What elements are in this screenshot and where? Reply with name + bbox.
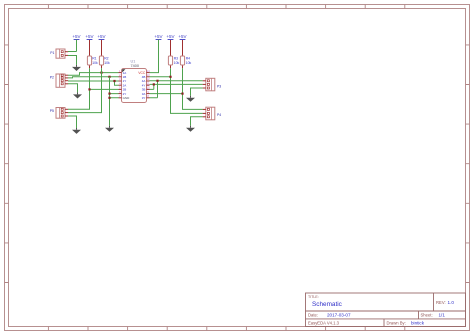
junction — [169, 76, 171, 78]
pin 6 — [119, 90, 127, 96]
power flag +5V at x=182.5 — [178, 34, 186, 40]
ground — [186, 126, 195, 132]
wire — [68, 56, 77, 65]
pin 7 — [119, 94, 131, 100]
pin 13 — [142, 73, 150, 79]
wire — [68, 81, 119, 85]
wire — [150, 81, 203, 98]
svg-text:Date:: Date: — [308, 313, 318, 318]
svg-text:R4: R4 — [186, 57, 190, 61]
pin 12 — [142, 77, 150, 83]
svg-text:7400: 7400 — [131, 64, 139, 68]
svg-text:EasyEDA V4.1.3: EasyEDA V4.1.3 — [308, 320, 340, 325]
junction — [108, 97, 110, 99]
svg-text:P2: P2 — [50, 75, 54, 79]
power flag +5V at x=76.5 — [72, 34, 80, 40]
svg-text:R2: R2 — [104, 57, 108, 61]
wire — [191, 117, 203, 126]
svg-text:+5V: +5V — [97, 34, 105, 39]
svg-text:+5V: +5V — [166, 34, 174, 39]
svg-text:10k: 10k — [104, 61, 110, 65]
pin 10 — [142, 86, 150, 92]
svg-text:R3: R3 — [174, 57, 178, 61]
svg-text:bintick: bintick — [411, 320, 425, 325]
pin 8 — [142, 94, 150, 100]
wire — [68, 68, 102, 112]
wire — [68, 68, 119, 109]
ground — [72, 128, 81, 134]
ground — [105, 126, 114, 132]
junction — [156, 80, 158, 82]
wire — [68, 84, 78, 93]
svg-text:P5: P5 — [50, 109, 54, 113]
resistor R2 10k — [99, 40, 110, 68]
wire — [110, 77, 119, 126]
svg-text:Schematic: Schematic — [312, 301, 343, 308]
junction — [113, 80, 115, 82]
svg-text:2017-03-07: 2017-03-07 — [327, 313, 351, 318]
svg-text:1.0: 1.0 — [448, 300, 455, 305]
power flag +5V at x=101.5 — [97, 34, 105, 40]
junction — [181, 93, 183, 95]
ground — [186, 96, 195, 102]
svg-text:+5V: +5V — [178, 34, 186, 39]
junction — [88, 88, 90, 90]
wire — [150, 40, 159, 73]
wire — [68, 73, 119, 76]
wire — [191, 88, 203, 96]
connector P4 — [203, 107, 222, 120]
pin 1 — [119, 69, 127, 75]
svg-text:Sheet:: Sheet: — [421, 313, 433, 318]
connector P1 — [50, 49, 68, 58]
svg-text:1/1: 1/1 — [439, 313, 446, 318]
svg-text:REV:: REV: — [436, 300, 446, 305]
wire — [150, 68, 203, 109]
connector P2 — [50, 74, 68, 87]
wire — [150, 84, 203, 89]
svg-text:10k: 10k — [92, 61, 98, 65]
wire — [68, 116, 77, 128]
wire — [150, 68, 203, 113]
pin 3 — [119, 77, 127, 83]
pin 2 — [119, 73, 127, 79]
resistor R1 10k — [87, 40, 98, 68]
junction — [108, 76, 110, 78]
wire — [68, 77, 119, 78]
pin 11 — [142, 81, 150, 87]
ground — [73, 92, 82, 98]
svg-text:P4: P4 — [217, 113, 221, 117]
pin 5 — [119, 86, 127, 92]
junction — [100, 72, 102, 74]
junction — [153, 83, 155, 85]
ground — [72, 65, 81, 71]
power flag +5V at x=170.5 — [166, 34, 174, 40]
power flag +5V at x=158.5 — [154, 34, 162, 40]
resistor R4 10k — [180, 40, 191, 68]
svg-text:3Y: 3Y — [142, 96, 146, 100]
IC U1 7400 — [119, 59, 151, 102]
pin 14 — [138, 69, 150, 75]
svg-text:TITLE:: TITLE: — [308, 295, 319, 299]
wire — [68, 40, 77, 52]
resistor R3 10k — [168, 40, 179, 68]
power flag +5V at x=89.5 — [85, 34, 93, 40]
svg-text:+5V: +5V — [72, 34, 80, 39]
svg-text:+5V: +5V — [85, 34, 93, 39]
svg-text:U1: U1 — [131, 59, 136, 63]
svg-text:Drawn By:: Drawn By: — [387, 320, 406, 325]
svg-text:R1: R1 — [92, 57, 96, 61]
svg-text:10k: 10k — [186, 61, 192, 65]
pin 4 — [119, 81, 127, 87]
svg-text:P3: P3 — [217, 84, 221, 88]
svg-text:10k: 10k — [174, 61, 180, 65]
svg-text:GND: GND — [123, 96, 131, 100]
connector P5 — [50, 108, 68, 119]
title block — [306, 293, 466, 327]
junction — [108, 93, 110, 95]
pin 9 — [142, 90, 150, 96]
svg-text:P1: P1 — [50, 51, 54, 55]
connector P3 — [203, 78, 222, 91]
svg-text:+5V: +5V — [154, 34, 162, 39]
